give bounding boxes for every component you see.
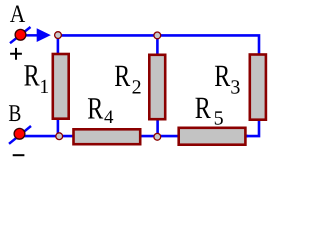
resistor R3 — [250, 55, 266, 120]
resistor R1 — [53, 54, 69, 119]
svg-text:1: 1 — [39, 76, 49, 98]
junction J1 (top, R1 branch) — [55, 32, 62, 39]
resistor R4 — [74, 129, 141, 144]
minus sign at node B — [13, 154, 25, 156]
svg-text:R: R — [195, 90, 211, 125]
resistor R2 — [149, 55, 165, 119]
wire: B node diagonal lead — [9, 126, 31, 144]
wire: top horizontal bus J1 to top-right corner — [56, 34, 259, 54]
wire: R1 bottom lead to bottom junction J3 — [57, 119, 60, 136]
wire: junction J1 down to R1 top — [57, 35, 60, 54]
junction J4 (bottom, R2 branch) — [154, 133, 161, 140]
wire: junction J2 down to R2 top — [156, 35, 159, 55]
wire: R2 bottom lead to bottom junction J4 — [156, 120, 159, 137]
svg-text:R: R — [87, 91, 103, 126]
resistor R5 — [179, 128, 246, 145]
svg-text:5: 5 — [214, 107, 224, 129]
svg-text:R: R — [214, 58, 230, 93]
node B terminal dot — [14, 128, 25, 139]
wire: bottom horizontal bus from node B to R5 — [22, 135, 248, 138]
svg-text:R: R — [24, 57, 40, 92]
wire: A node diagonal lead — [10, 27, 31, 43]
svg-text:2: 2 — [132, 77, 142, 99]
svg-text:R: R — [114, 58, 130, 93]
wire: node A to arrow shaft — [24, 34, 39, 37]
svg-text:B: B — [8, 101, 21, 127]
current arrow into junction J1 — [37, 28, 51, 42]
plus sign at node A — [10, 48, 22, 60]
wire: R3 bottom lead and corner to R5 — [246, 120, 259, 136]
junction J2 (top, R2 branch) — [154, 32, 161, 39]
junction J3 (bottom, R1 branch) — [56, 133, 63, 140]
node A terminal dot — [15, 29, 26, 40]
svg-text:3: 3 — [230, 77, 240, 99]
svg-text:A: A — [10, 1, 26, 28]
svg-text:4: 4 — [104, 107, 114, 128]
